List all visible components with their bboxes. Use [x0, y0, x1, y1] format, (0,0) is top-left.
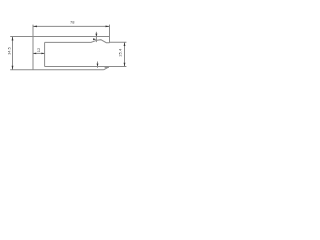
wire: top dimension line 78	[33, 25, 110, 27]
wire: left dimension line 34.5	[12, 37, 14, 70]
arrow: 78 dim right	[106, 26, 110, 28]
svg-text:25.4: 25.4	[117, 48, 122, 57]
wire: bottom lip tip	[105, 66, 109, 68]
arrow: 12 dim right	[41, 53, 44, 55]
wire: inner top line of top flange	[45, 40, 110, 43]
arrow: flange thickness top	[95, 34, 97, 37]
arrow: 34.5 dim bottom	[12, 66, 14, 70]
wire: inner left wall	[44, 42, 46, 66]
arrow: 12 dim left	[33, 53, 36, 55]
wire: right extension line of 78 dim	[109, 25, 111, 37]
arrow: 34.5 dim top	[12, 37, 14, 41]
wire: right extension line from top lip	[110, 41, 127, 43]
wire: 12 dimension line	[33, 52, 45, 54]
svg-text:78: 78	[70, 20, 75, 25]
arrow: leader into flange	[93, 38, 96, 40]
wire: right dimension line	[124, 42, 126, 66]
wire: bottom flange thickness dim line	[97, 62, 99, 68]
wire: left extension line of 78 dim / part left edge upper	[32, 25, 34, 37]
wire: part outline left edge	[32, 37, 34, 70]
wire: part bottom edge with left extension to 34.5 dim	[10, 69, 103, 71]
wire: small flange thickness dim line	[95, 32, 97, 42]
arrow: right dim top	[124, 42, 126, 46]
svg-text:34.5: 34.5	[8, 47, 12, 54]
wire: part top edge with left extension to 34.5 dim	[10, 36, 109, 38]
wire: top flange right end face	[109, 37, 111, 43]
arrow: bottom flange thickness	[97, 64, 99, 67]
wire: bottom lip slant	[104, 67, 109, 70]
arrow: 78 dim left	[33, 26, 37, 28]
arrow: right dim bottom	[124, 63, 126, 67]
wire: inner bottom line and right extension line	[45, 66, 127, 68]
svg-text:12: 12	[36, 47, 41, 52]
